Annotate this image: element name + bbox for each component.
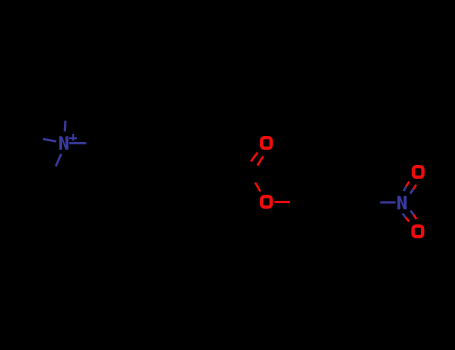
bond N1-CH2 chain blue half bbox=[69, 142, 86, 144]
ester oxygen O2 bbox=[262, 197, 272, 208]
carbonyl oxygen O1 bbox=[262, 138, 272, 149]
bond N1-CH3 (up methyl) blue half bbox=[64, 121, 67, 132]
double bond N2=O4 blue halves bbox=[403, 211, 414, 218]
double bond N2=O3 red halves bbox=[406, 182, 416, 190]
double bond N2=O4 red halves bbox=[406, 215, 417, 222]
bond C-O2 red half bbox=[255, 183, 260, 192]
nitro oxygen O3 (top) bbox=[413, 167, 423, 178]
plus charge on N1 bbox=[69, 134, 77, 141]
trimethylammonium nitrogen N1+ bbox=[59, 136, 68, 150]
double bond C=O1 red halves bbox=[251, 153, 263, 166]
bond N1-CH3 (lower-left methyl) blue half bbox=[56, 154, 61, 167]
bond C(aryl)-N2 blue half bbox=[380, 201, 395, 203]
bond O2-C(aryl) red half bbox=[274, 201, 290, 203]
double bond N2=O3 blue halves bbox=[404, 186, 414, 193]
nitro oxygen O4 (bottom) bbox=[413, 226, 423, 237]
nitro nitrogen N2 bbox=[397, 196, 406, 210]
bond N1-CH3 (left methyl) blue half bbox=[43, 139, 56, 141]
